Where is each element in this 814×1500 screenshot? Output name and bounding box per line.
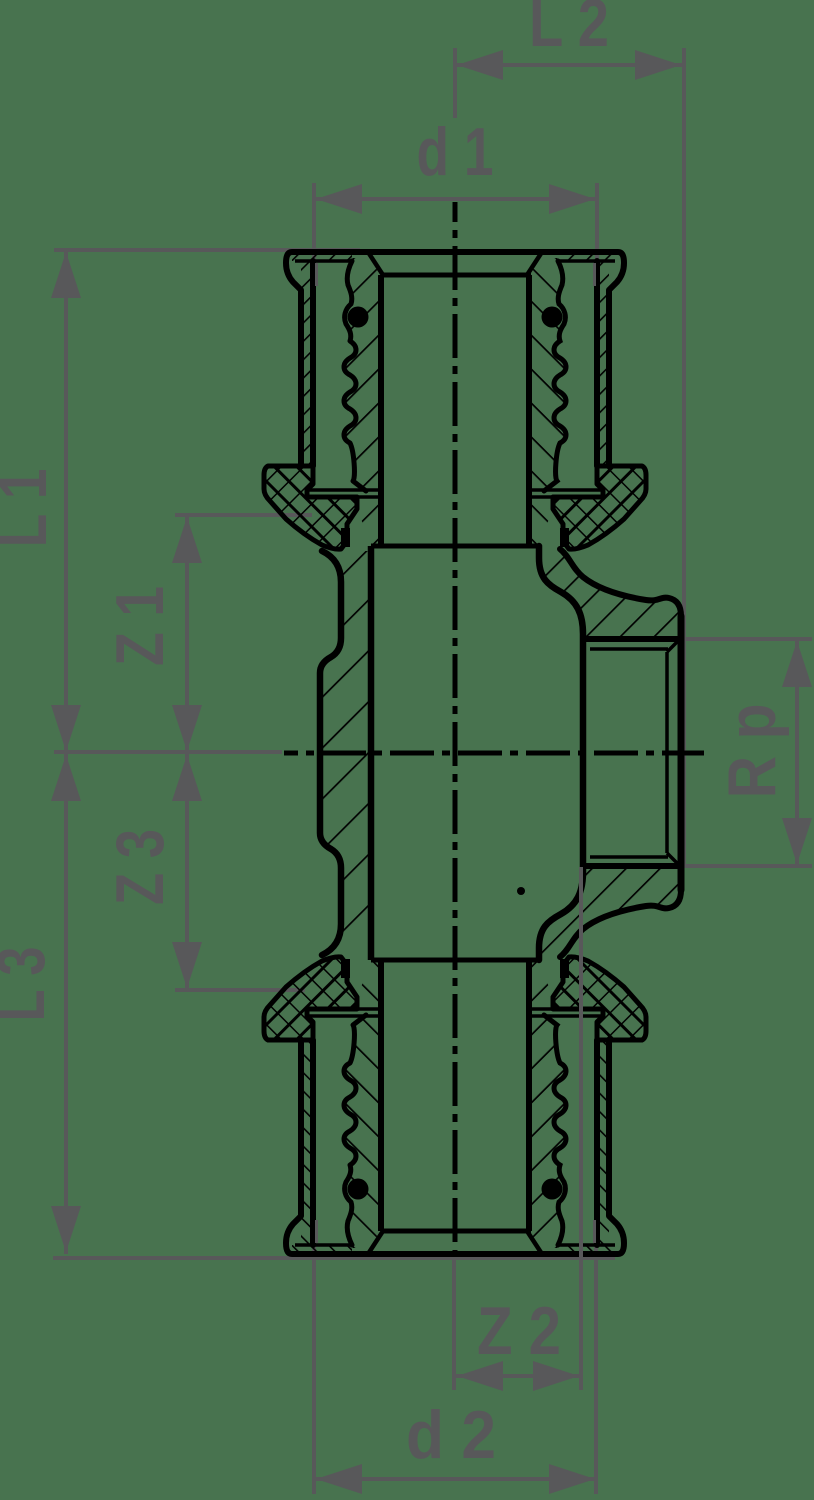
sleeve right outline bbox=[609, 252, 624, 466]
sleeve bead lips hatch bbox=[292, 1245, 352, 1254]
press sleeve right wall hatch bbox=[597, 262, 609, 466]
sleeve left outline bbox=[286, 252, 301, 466]
svg-text:Z 2: Z 2 bbox=[477, 1293, 561, 1369]
top face bbox=[292, 1251, 618, 1257]
O-ring right bbox=[542, 1179, 563, 1200]
svg-text:L 3: L 3 bbox=[0, 947, 59, 1022]
d1 extension sliver left bbox=[315, 263, 318, 286]
O-ring left bbox=[348, 1179, 369, 1200]
thread crest bottom bbox=[583, 863, 678, 869]
dimension d1 bbox=[314, 197, 597, 201]
svg-text:R p: R p bbox=[714, 704, 790, 799]
flange seal right bbox=[560, 528, 569, 547]
svg-text:Z 1: Z 1 bbox=[102, 586, 178, 666]
flange seal right bbox=[560, 959, 569, 978]
O-ring right bbox=[542, 307, 563, 328]
mouth chamfer left bbox=[368, 252, 383, 275]
flange seal left bbox=[341, 528, 350, 547]
bore right wall bbox=[526, 960, 532, 1231]
svg-text:L 1: L 1 bbox=[0, 469, 61, 548]
branch upper wall hatch bbox=[539, 549, 681, 639]
tube serrated edge left bbox=[344, 1015, 366, 1245]
mouth chamfer right bbox=[527, 1231, 542, 1254]
tube serrated edge right bbox=[544, 1015, 566, 1245]
sleeve bead lips hatch bbox=[292, 252, 352, 261]
thread start line bbox=[665, 652, 669, 853]
mouth chamfer right bbox=[527, 252, 542, 275]
svg-text:d 1: d 1 bbox=[417, 114, 494, 190]
press sleeve left wall hatch bbox=[301, 1040, 313, 1244]
support tube left wall hatch bbox=[344, 1009, 381, 1248]
dimension Z1 bbox=[185, 515, 189, 753]
vertical centerline bbox=[453, 202, 458, 1253]
dimension L2 bbox=[455, 63, 683, 67]
bore left wall bbox=[378, 275, 384, 546]
bore left wall bbox=[378, 960, 384, 1231]
bore right wall bbox=[526, 275, 532, 546]
center reference line bbox=[54, 750, 282, 754]
flange seat lines left bbox=[307, 488, 381, 492]
bottom press connection (mirrored) bbox=[264, 957, 646, 1254]
body left wall hatch bbox=[320, 551, 371, 955]
flange seat lines right bbox=[529, 1014, 603, 1018]
branch upper outer contour bbox=[560, 549, 681, 616]
body right bore wall bbox=[539, 546, 583, 960]
branch lower wall hatch bbox=[539, 866, 681, 957]
sleeve left outline bbox=[286, 1040, 301, 1254]
right flange bbox=[553, 466, 646, 549]
lower tube wall hatch (to stop step) bbox=[353, 960, 381, 1009]
top face bbox=[292, 249, 618, 255]
d2 extension sliver left bbox=[315, 1220, 318, 1243]
mouth chamfers bbox=[667, 639, 680, 652]
flange seat lines right bbox=[529, 488, 603, 492]
dimension Z2 bbox=[455, 1374, 581, 1378]
dimension L1 bbox=[64, 250, 68, 753]
thread crest top bbox=[583, 636, 678, 642]
press sleeve right wall hatch bbox=[597, 1040, 609, 1244]
svg-text:L 2: L 2 bbox=[529, 0, 609, 61]
body left outer wall bbox=[320, 551, 341, 955]
svg-text:Z 3: Z 3 bbox=[102, 829, 178, 905]
left flange bbox=[264, 957, 357, 1040]
pipe stop step bbox=[371, 544, 539, 549]
flange seat lines left bbox=[307, 1014, 381, 1018]
support tube left wall hatch bbox=[344, 258, 381, 497]
d2 extension sliver right bbox=[593, 1220, 596, 1243]
flange seal left bbox=[341, 959, 350, 978]
dimension Z3 bbox=[185, 753, 189, 990]
O-ring left bbox=[348, 307, 369, 328]
left flange bbox=[264, 466, 357, 549]
dimension Rp bbox=[795, 639, 799, 866]
d1 extension sliver right bbox=[593, 263, 596, 286]
small mark below branch bbox=[517, 887, 525, 895]
Z2 right extension bbox=[579, 867, 583, 1390]
dimension L3 bbox=[64, 753, 68, 1254]
right flange bbox=[553, 957, 646, 1040]
dimension d2 bbox=[314, 1477, 597, 1481]
mouth chamfer left bbox=[368, 1231, 383, 1254]
horizontal centerline bbox=[284, 751, 704, 756]
sleeve right outline bbox=[609, 1040, 624, 1254]
support tube right wall hatch bbox=[529, 1009, 566, 1248]
lower tube wall hatch (to stop step) bbox=[353, 497, 381, 546]
top press connection bbox=[264, 252, 646, 549]
tube serrated edge right bbox=[544, 261, 566, 491]
svg-text:d 2: d 2 bbox=[406, 1397, 496, 1473]
pipe stop step bbox=[371, 958, 539, 963]
branch lower outer contour bbox=[560, 890, 681, 957]
press sleeve left wall hatch bbox=[301, 262, 313, 466]
branch face bbox=[678, 616, 685, 890]
tube serrated edge left bbox=[344, 261, 366, 491]
body left bore wall bbox=[368, 546, 375, 960]
support tube right wall hatch bbox=[529, 258, 566, 497]
